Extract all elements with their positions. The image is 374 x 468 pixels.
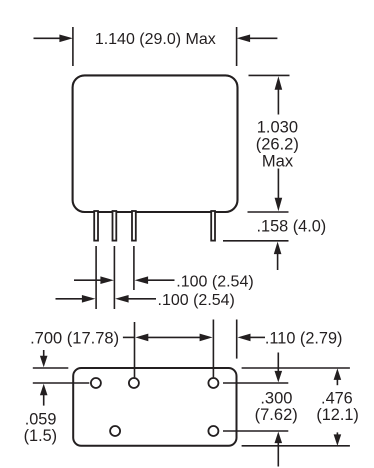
hole B1 bbox=[110, 426, 120, 436]
dimension arrow right (.100 upper row) bbox=[135, 276, 175, 284]
dimension arrow down (.476) bbox=[334, 432, 342, 446]
svg-text:(1.5): (1.5) bbox=[24, 427, 57, 445]
label .158 (4.0) bbox=[257, 217, 327, 235]
hole B2 bbox=[208, 426, 218, 436]
label 1.140 (29.0) Max bbox=[95, 31, 216, 48]
svg-text:1.140 (29.0) Max: 1.140 (29.0) Max bbox=[95, 31, 216, 48]
label 1.030 (26.2) Max bbox=[256, 119, 299, 171]
svg-text:(7.62): (7.62) bbox=[255, 406, 298, 424]
extension line plate top right bbox=[242, 367, 350, 369]
dimension arrow left (.100 lower row) bbox=[56, 295, 96, 303]
svg-text:(26.2): (26.2) bbox=[256, 136, 299, 154]
dimension arrow right (1.140) bbox=[237, 35, 278, 43]
hole A2 bbox=[129, 378, 139, 388]
extension line hole row 1 right bbox=[223, 382, 288, 384]
svg-text:.700 (17.78): .700 (17.78) bbox=[30, 329, 119, 347]
dimension arrow up (.059) bbox=[40, 384, 48, 406]
dimension arrow left (.700) bbox=[135, 334, 200, 342]
label .476 (12.1) bbox=[316, 389, 359, 424]
leader line from .700 label bbox=[123, 336, 135, 338]
svg-text:.110 (2.79): .110 (2.79) bbox=[265, 329, 343, 347]
extension line plate top left bbox=[33, 367, 69, 369]
extension line hole A3 centerline bbox=[212, 320, 214, 378]
svg-text:1.030: 1.030 bbox=[257, 119, 298, 137]
extension line hole row 1 left bbox=[33, 382, 90, 384]
pin 3 extension line bbox=[133, 246, 135, 290]
dimension arrow right (.700) bbox=[200, 334, 213, 342]
label .300 (7.62) bbox=[255, 389, 298, 424]
extension line bottom of 1.030 dimension bbox=[248, 211, 289, 213]
svg-text:(12.1): (12.1) bbox=[316, 406, 359, 424]
dimension arrow down (.300) bbox=[275, 353, 283, 383]
dimension arrow up (.300) bbox=[275, 432, 283, 467]
dimension arrow left (1.140) bbox=[34, 35, 73, 43]
label .700 (17.78) bbox=[30, 329, 119, 347]
hole A1 bbox=[91, 378, 101, 388]
extension line hole A2 centerline bbox=[134, 322, 136, 377]
extension line left of 1.140 dimension bbox=[72, 27, 74, 66]
hole A3 bbox=[208, 378, 218, 388]
dimension arrow down (.059) bbox=[40, 350, 48, 367]
extension line right of 1.140 dimension bbox=[236, 27, 238, 66]
svg-text:.158 (4.0): .158 (4.0) bbox=[257, 217, 327, 235]
relay body outline (top view) bbox=[73, 75, 238, 212]
pin 2 extension line bbox=[113, 246, 115, 309]
svg-text:Max: Max bbox=[262, 153, 294, 171]
extension line top of 1.030 dimension bbox=[249, 74, 290, 76]
pin 4 bbox=[211, 211, 215, 241]
dimension arrow up (.476) bbox=[334, 368, 342, 385]
base plate outline (bottom view) bbox=[73, 368, 236, 446]
extension line plate bottom right bbox=[242, 445, 350, 447]
pin 1 extension line bbox=[95, 246, 97, 309]
extension line pin bottom (.158) bbox=[223, 240, 289, 242]
dimension arrow up (1.030) bbox=[275, 76, 283, 114]
svg-text:.476: .476 bbox=[321, 389, 353, 407]
extension line hole row 2 right bbox=[223, 430, 288, 432]
pin 1 bbox=[94, 211, 98, 241]
svg-text:.059: .059 bbox=[25, 410, 57, 428]
label .059 (1.5) bbox=[24, 410, 57, 445]
dimension arrow up (.158) bbox=[274, 242, 282, 270]
extension line right edge (.110) bbox=[236, 320, 238, 359]
svg-text:.100 (2.54): .100 (2.54) bbox=[158, 292, 235, 309]
pin 2 bbox=[113, 211, 117, 241]
dimension arrow left (.100 upper row) bbox=[74, 276, 114, 284]
label .100 (2.54) upper bbox=[176, 273, 253, 290]
label .100 (2.54) lower bbox=[158, 292, 235, 309]
dimension arrow (.110) bbox=[238, 334, 266, 342]
svg-text:.100 (2.54): .100 (2.54) bbox=[176, 273, 253, 290]
dimension arrow down (1.030) bbox=[275, 169, 283, 212]
pin 3 bbox=[132, 211, 136, 241]
label .110 (2.79) bbox=[265, 329, 343, 347]
svg-text:.300: .300 bbox=[260, 389, 292, 407]
dimension arrow right (.100 lower row) bbox=[115, 295, 156, 303]
